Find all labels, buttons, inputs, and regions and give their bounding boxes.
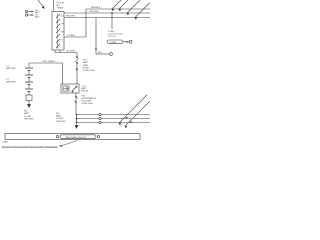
- svg-text:FUSE LINK: FUSE LINK: [82, 103, 94, 105]
- svg-text:TO A/C: TO A/C: [108, 30, 116, 33]
- svg-text:BLU/WH: BLU/WH: [67, 51, 76, 53]
- svg-text:BLK: BLK: [98, 52, 103, 54]
- svg-text:BATT: BATT: [35, 15, 41, 18]
- svg-text:ANOTHER CIRCUIT: ANOTHER CIRCUIT: [66, 136, 87, 139]
- svg-text:BLU/WH: BLU/WH: [90, 11, 99, 13]
- svg-text:T.08A: T.08A: [2, 141, 8, 144]
- svg-text:BATT: BATT: [56, 115, 62, 118]
- svg-text:BLK CABLE: BLK CABLE: [43, 60, 55, 63]
- svg-text:BATTERY: BATTERY: [6, 67, 16, 70]
- svg-text:BATT: BATT: [24, 112, 30, 115]
- svg-text:BATT: BATT: [83, 61, 89, 64]
- svg-text:System Functional Schematic Ex: System Functional Schematic Example: [2, 145, 58, 149]
- svg-text:TIMES: TIMES: [57, 8, 64, 10]
- svg-text:CONN: CONN: [110, 42, 117, 44]
- svg-text:GROUND: GROUND: [56, 121, 66, 123]
- svg-text:BATT: BATT: [82, 87, 88, 90]
- svg-text:RED/WH: RED/WH: [66, 16, 75, 18]
- svg-text:ST: ST: [61, 40, 63, 42]
- svg-text:ALTERNATOR: ALTERNATOR: [82, 97, 97, 100]
- svg-text:CKT CB: CKT CB: [108, 36, 117, 38]
- svg-text:VIO/BLK: VIO/BLK: [67, 35, 76, 37]
- svg-text:ALL: ALL: [57, 4, 62, 7]
- svg-text:OFF: OFF: [61, 24, 64, 26]
- svg-text:GROUND: GROUND: [24, 118, 34, 120]
- svg-text:RELAY: RELAY: [82, 90, 90, 93]
- svg-text:RED/BLK: RED/BLK: [91, 7, 101, 9]
- svg-text:FUSE LINK: FUSE LINK: [83, 70, 95, 72]
- svg-text:HOT AT: HOT AT: [57, 1, 65, 4]
- svg-text:BATTERY: BATTERY: [6, 81, 16, 84]
